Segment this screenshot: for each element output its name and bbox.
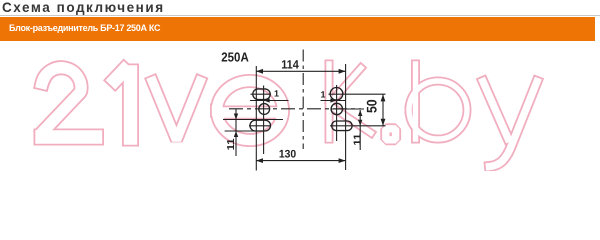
svg-text:1: 1 [274, 89, 279, 99]
svg-text:130: 130 [279, 148, 296, 160]
svg-text:11: 11 [226, 138, 237, 150]
svg-text:11: 11 [353, 133, 364, 145]
svg-text:50: 50 [363, 99, 379, 113]
svg-text:1: 1 [320, 89, 325, 99]
svg-text:114: 114 [281, 57, 299, 71]
svg-text:250A: 250A [221, 50, 249, 65]
